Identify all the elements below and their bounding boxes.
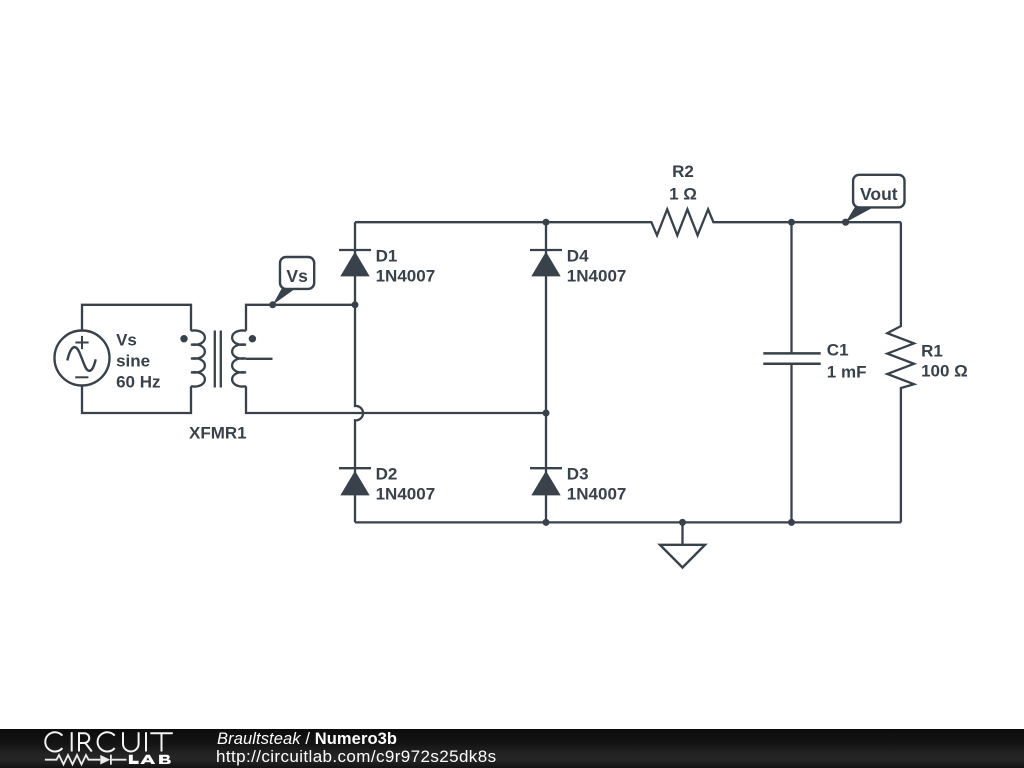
logo letter A bbox=[140, 755, 155, 764]
diode D2 cathode bar bbox=[339, 467, 371, 469]
wire bridge left vertical with hop bbox=[355, 222, 363, 522]
svg-text:R2: R2 bbox=[672, 162, 694, 181]
logo letter C bbox=[45, 732, 62, 751]
phase dot primary bbox=[180, 335, 187, 342]
logo letter U bbox=[123, 732, 139, 751]
logo letter R bbox=[79, 733, 92, 751]
node label Vout box bbox=[853, 175, 904, 208]
svg-text:100 Ω: 100 Ω bbox=[921, 362, 968, 381]
logo letter T bbox=[150, 733, 173, 751]
plus sign bbox=[75, 336, 88, 349]
diode D2 triangle bbox=[340, 471, 369, 496]
junction dot Vs node bbox=[269, 301, 276, 308]
svg-text:D2: D2 bbox=[376, 464, 398, 483]
svg-text:1 mF: 1 mF bbox=[827, 362, 867, 381]
svg-text:60 Hz: 60 Hz bbox=[116, 373, 160, 392]
svg-text:Vs: Vs bbox=[286, 266, 308, 286]
sine symbol bbox=[67, 347, 95, 371]
logo letter C bbox=[98, 732, 115, 751]
junction dot bridge top-left bbox=[352, 301, 359, 308]
junction dot ground bbox=[679, 519, 686, 526]
wire secondary top to bridge bbox=[246, 305, 355, 331]
transformer core lines bbox=[215, 331, 221, 388]
transformer XFMR1 secondary winding bbox=[232, 330, 246, 386]
logo letter L bbox=[129, 755, 139, 764]
wire top rail with resistor R2 zigzag bbox=[355, 209, 901, 235]
svg-text:XFMR1: XFMR1 bbox=[189, 424, 247, 443]
logo letter B bbox=[159, 755, 171, 764]
junction dot top rail D4 bbox=[543, 219, 550, 226]
diode D3 triangle bbox=[531, 471, 560, 496]
diode D4 cathode bar bbox=[530, 249, 562, 251]
phase dot secondary bbox=[249, 335, 256, 342]
logo resistor symbol bbox=[45, 755, 127, 764]
svg-text:Vs: Vs bbox=[116, 330, 137, 349]
junction dot C1 top bbox=[788, 219, 795, 226]
wire left loop bottom bbox=[82, 386, 191, 414]
url text bbox=[216, 749, 496, 765]
node label Vs box bbox=[280, 257, 314, 289]
diode D1 triangle bbox=[340, 252, 369, 277]
footer bar bbox=[0, 729, 1024, 768]
node label Vs tail bbox=[273, 288, 297, 305]
voltage source V1 circle bbox=[55, 331, 110, 386]
junction dot Vout node bbox=[842, 219, 849, 226]
wire bottom rail bbox=[355, 521, 901, 523]
minus sign bbox=[75, 376, 88, 378]
title text bbox=[217, 731, 397, 747]
node label Vout tail bbox=[846, 206, 876, 222]
junction dot mid rail D4 bbox=[543, 410, 550, 417]
svg-text:D4: D4 bbox=[567, 246, 589, 265]
svg-text:R1: R1 bbox=[921, 341, 943, 360]
svg-text:1N4007: 1N4007 bbox=[376, 485, 436, 504]
logo letter I bbox=[71, 732, 73, 751]
svg-text:1 Ω: 1 Ω bbox=[669, 185, 697, 204]
svg-text:Vout: Vout bbox=[860, 184, 898, 204]
capacitor C1 top lead bbox=[790, 222, 792, 353]
svg-text:1N4007: 1N4007 bbox=[567, 485, 627, 504]
svg-text:1N4007: 1N4007 bbox=[376, 267, 436, 286]
wire R1 branch with zigzag bbox=[887, 222, 914, 522]
svg-text:D3: D3 bbox=[567, 464, 589, 483]
wire left loop top bbox=[82, 305, 191, 331]
junction dot bottom rail D3 bbox=[543, 519, 550, 526]
wire secondary bottom to bridge mid bbox=[246, 386, 546, 413]
ground stub bbox=[681, 522, 683, 544]
wire bridge right vertical bbox=[545, 222, 547, 522]
logo diode bar bbox=[110, 755, 112, 765]
diode D4 triangle bbox=[531, 252, 560, 277]
diode D3 cathode bar bbox=[530, 467, 562, 469]
svg-text:D1: D1 bbox=[376, 246, 398, 265]
transformer XFMR1 primary winding bbox=[191, 330, 205, 386]
svg-text:1N4007: 1N4007 bbox=[567, 267, 627, 286]
svg-text:sine: sine bbox=[116, 352, 150, 371]
capacitor C1 plates bbox=[763, 353, 820, 363]
capacitor C1 bottom lead bbox=[790, 364, 792, 523]
ground triangle bbox=[660, 545, 705, 568]
svg-text:C1: C1 bbox=[827, 341, 849, 360]
wire center tap stub bbox=[246, 358, 273, 360]
diode D1 cathode bar bbox=[339, 249, 371, 251]
logo diode triangle bbox=[100, 755, 110, 765]
junction dot C1 bottom bbox=[788, 519, 795, 526]
logo letter I bbox=[145, 732, 147, 751]
